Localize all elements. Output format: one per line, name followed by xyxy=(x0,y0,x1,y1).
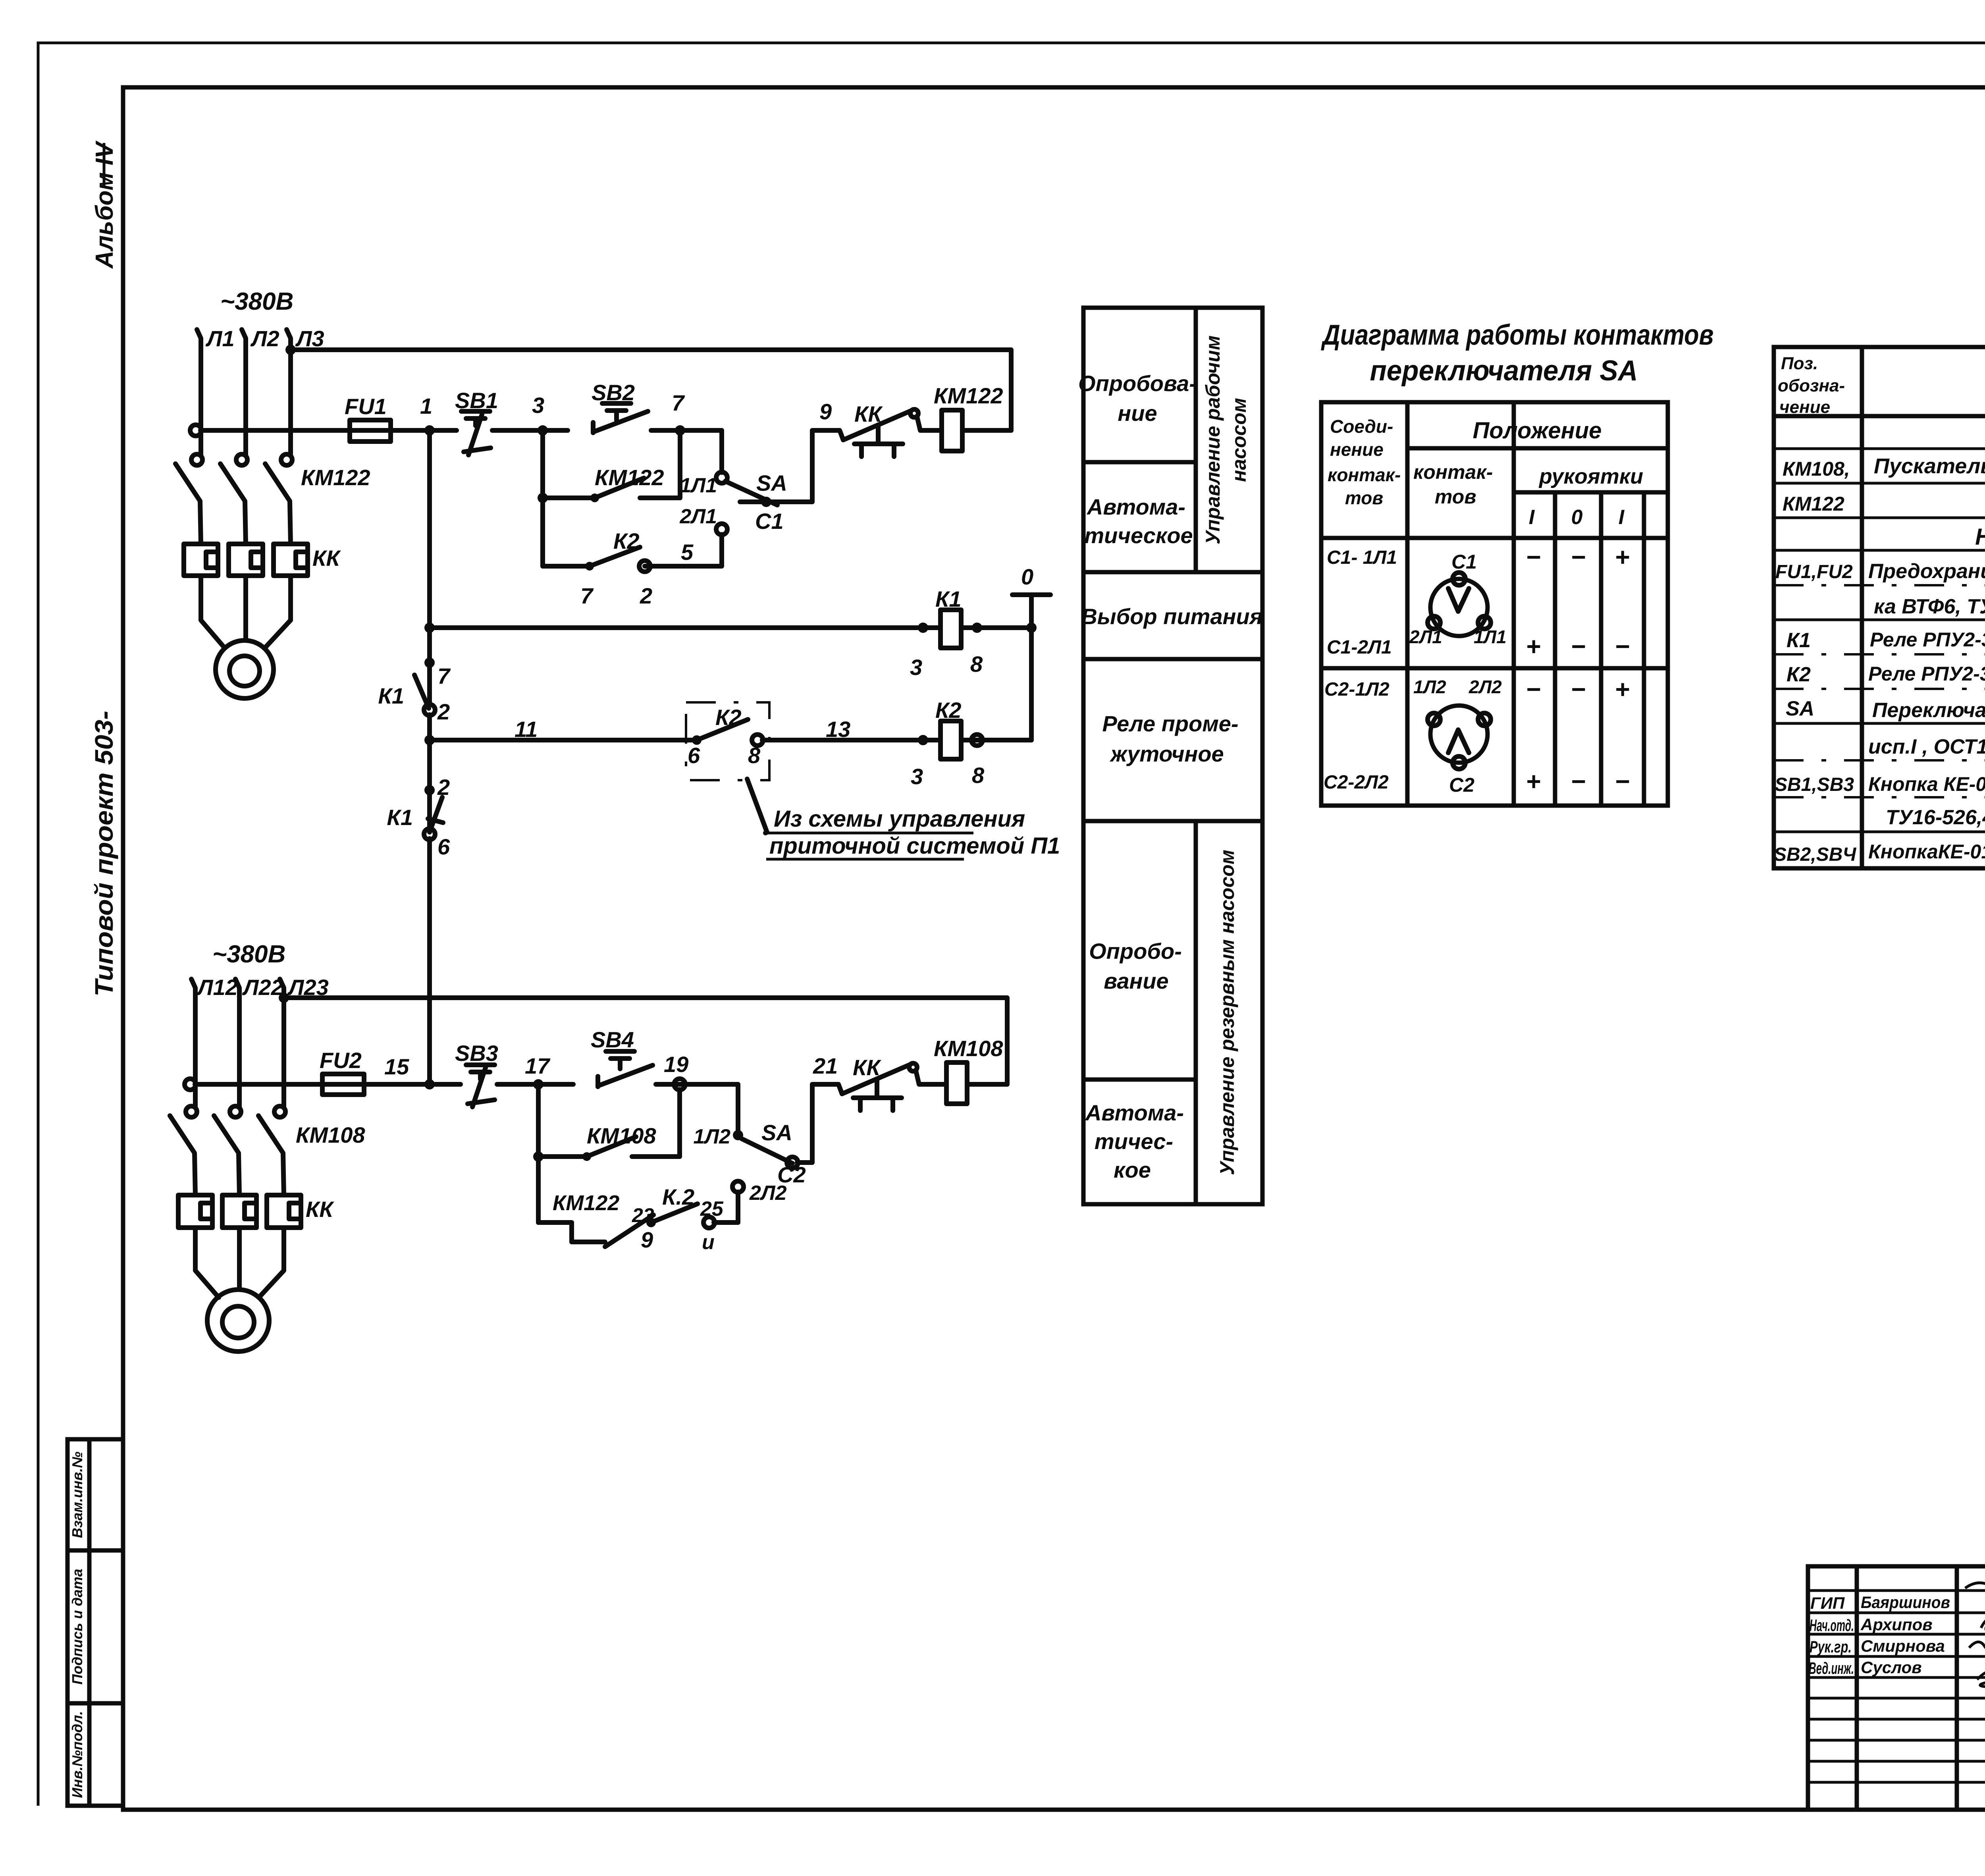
node 3 xyxy=(538,425,548,436)
svg-text:Л22: Л22 xyxy=(242,975,283,1000)
left margin texts xyxy=(67,140,123,1806)
svg-text:ние: ние xyxy=(1118,401,1157,426)
svg-text:КМ108: КМ108 xyxy=(934,1036,1003,1061)
svg-text:КМ122: КМ122 xyxy=(553,1191,619,1215)
wire vertical node1 chain xyxy=(427,430,432,705)
svg-text:Выбор питания: Выбор питания xyxy=(1081,604,1262,629)
svg-text:К1: К1 xyxy=(378,683,404,708)
thermal contact KK (NC) xyxy=(842,1055,946,1111)
switch contact 2L2 xyxy=(732,1181,744,1192)
svg-text:0: 0 xyxy=(1571,506,1583,529)
table frame xyxy=(1774,347,1985,868)
node 15 xyxy=(424,1079,435,1089)
svg-text:приточной системой П1: приточной системой П1 xyxy=(769,833,1060,859)
wire phase L3 xyxy=(287,330,291,454)
svg-text:−: − xyxy=(1615,767,1629,796)
pushbutton SB4 (NO) xyxy=(591,1027,653,1087)
svg-text:контак-: контак- xyxy=(1413,461,1493,483)
svg-text:КК: КК xyxy=(854,401,883,426)
svg-text:КМ122: КМ122 xyxy=(301,465,370,490)
header rows xyxy=(1407,446,1668,451)
switch contact 1L2 xyxy=(733,1130,743,1140)
node on rail xyxy=(1026,623,1037,633)
aux contact KM108 branch xyxy=(533,1084,680,1222)
svg-text:Вед.инж.: Вед.инж. xyxy=(1809,1659,1854,1677)
svg-text:1Л2: 1Л2 xyxy=(1413,677,1446,697)
control tap terminal on L1 xyxy=(190,425,201,436)
svg-text:На щите управления: На щите управления xyxy=(1975,524,1985,550)
svg-text:кое: кое xyxy=(1114,1157,1151,1182)
thermal relay KK heaters xyxy=(178,1195,334,1228)
node 19 xyxy=(674,1079,685,1090)
wire xyxy=(497,1082,573,1087)
aux contact K2 branch xyxy=(543,528,722,608)
svg-text:I: I xyxy=(1529,506,1535,529)
svg-text:+: + xyxy=(1615,543,1629,571)
title block xyxy=(1808,1566,1985,1851)
pushbutton SB2 (NO) xyxy=(592,380,648,433)
switch SA blade xyxy=(742,1139,792,1163)
svg-text:3: 3 xyxy=(910,655,922,680)
svg-text:9: 9 xyxy=(819,399,832,424)
svg-text:2Л2: 2Л2 xyxy=(749,1182,787,1205)
row lines xyxy=(1774,447,1985,450)
svg-text:тичес-: тичес- xyxy=(1095,1129,1173,1154)
svg-text:К2: К2 xyxy=(1786,663,1811,686)
coil KM122 xyxy=(942,410,962,451)
wire bottom bus xyxy=(284,998,1007,1084)
svg-text:I: I xyxy=(1619,506,1625,529)
svg-text:Положение: Положение xyxy=(1473,418,1602,443)
node 8 xyxy=(972,623,982,633)
svg-text:Л3: Л3 xyxy=(295,326,324,351)
svg-text:обозна-: обозна- xyxy=(1778,376,1845,395)
svg-text:жуточное: жуточное xyxy=(1109,741,1224,766)
svg-text:6: 6 xyxy=(688,743,700,768)
node 1 xyxy=(424,425,435,436)
svg-text:КК: КК xyxy=(853,1055,881,1080)
svg-text:насосом: насосом xyxy=(1228,398,1250,482)
contactor KM122 main contacts xyxy=(175,454,370,544)
svg-text:Предохранитель ППТ-10УЗ, плавк: Предохранитель ППТ-10УЗ, плавкая встав xyxy=(1868,560,1985,583)
aux contact KM122 branch xyxy=(538,430,680,566)
node C1 xyxy=(761,497,771,507)
svg-text:21: 21 xyxy=(813,1053,838,1078)
coil KM108 xyxy=(946,1062,967,1104)
table frame xyxy=(1083,308,1262,1204)
svg-text:Инв.№подл.: Инв.№подл. xyxy=(69,1711,85,1798)
svg-text:7: 7 xyxy=(672,390,685,415)
svg-text:ка ВТФ6, ТУ16-521.037-75: ка ВТФ6, ТУ16-521.037-75 xyxy=(1874,595,1985,618)
node 3 xyxy=(918,735,928,745)
motor M2 xyxy=(195,1228,284,1352)
leader line xyxy=(747,779,767,833)
svg-text:11: 11 xyxy=(515,717,538,742)
svg-text:15: 15 xyxy=(384,1054,409,1079)
relay rows xyxy=(378,430,1060,1084)
svg-text:FU1: FU1 xyxy=(345,394,387,419)
node 3 xyxy=(918,623,928,633)
svg-text:Автома-: Автома- xyxy=(1085,1100,1184,1125)
svg-text:КМ122: КМ122 xyxy=(934,383,1003,408)
svg-text:С2: С2 xyxy=(1449,774,1474,796)
svg-text:Реле проме-: Реле проме- xyxy=(1102,711,1238,736)
svg-text:−: − xyxy=(1571,632,1585,661)
svg-text:5: 5 xyxy=(681,540,694,565)
col lines xyxy=(1860,347,1864,868)
top motor circuit xyxy=(175,288,1011,698)
dashed box K2 external xyxy=(686,702,769,780)
svg-text:Реле РПУ2-362003УЗ,~220В, ТУ16: Реле РПУ2-362003УЗ,~220В, ТУ16-523,331-7… xyxy=(1868,663,1985,685)
wire phase L12 xyxy=(191,979,195,1106)
svg-text:Типовой проект 503-: Типовой проект 503- xyxy=(90,711,118,997)
svg-text:Пускатель магнитный: Пускатель магнитный xyxy=(1874,454,1985,478)
svg-text:+: + xyxy=(1526,632,1540,661)
node junction K2 row xyxy=(424,735,435,745)
svg-text:9: 9 xyxy=(641,1227,653,1252)
svg-text:Автома-: Автома- xyxy=(1086,494,1185,519)
row lines xyxy=(1083,460,1196,465)
svg-text:1Л1: 1Л1 xyxy=(1474,627,1507,647)
svg-text:тов: тов xyxy=(1345,488,1383,508)
svg-text:КК: КК xyxy=(306,1197,334,1222)
column divider bottom xyxy=(1194,821,1198,1204)
svg-text:КК: КК xyxy=(312,546,341,571)
svg-text:Взам.инв.№: Взам.инв.№ xyxy=(69,1452,85,1538)
wire SA output xyxy=(740,430,843,502)
svg-text:17: 17 xyxy=(525,1053,551,1078)
svg-text:Л12: Л12 xyxy=(196,975,238,1000)
svg-text:FU2: FU2 xyxy=(320,1048,362,1073)
coil K1 xyxy=(940,610,961,648)
svg-text:−: − xyxy=(1571,543,1585,571)
fuse FU1 xyxy=(200,428,457,433)
svg-text:С1: С1 xyxy=(755,509,784,534)
svg-text:К1: К1 xyxy=(387,805,413,830)
svg-text:Опробова-: Опробова- xyxy=(1078,371,1197,396)
svg-text:Рук.гр.: Рук.гр. xyxy=(1810,1637,1852,1656)
svg-text:−: − xyxy=(1571,767,1585,796)
svg-text:19: 19 xyxy=(664,1052,688,1077)
wire top bus xyxy=(291,350,1011,430)
svg-text:Управление рабочим: Управление рабочим xyxy=(1202,335,1224,544)
svg-text:1Л2: 1Л2 xyxy=(693,1125,730,1148)
svg-text:−: − xyxy=(1615,632,1629,661)
contactor KM108 main contacts xyxy=(170,1106,365,1195)
bottom left stamp strip xyxy=(67,1439,123,1806)
col lines xyxy=(1405,402,1410,806)
motor M1 xyxy=(201,576,291,698)
svg-text:Подпись и дата: Подпись и дата xyxy=(69,1569,85,1685)
svg-text:исп.I , ОСТ16,0526,001-77: исп.I , ОСТ16,0526,001-77 xyxy=(1868,735,1985,758)
switch contact 1L1 xyxy=(716,472,727,483)
wire xyxy=(962,428,1011,433)
switch contact 2L1 xyxy=(716,524,727,535)
svg-text:7: 7 xyxy=(580,583,594,608)
svg-text:3: 3 xyxy=(532,393,544,418)
svg-text:13: 13 xyxy=(826,717,850,742)
svg-text:7: 7 xyxy=(437,663,451,688)
node junction K1 row xyxy=(424,623,435,633)
svg-text:~380В: ~380В xyxy=(220,288,293,315)
svg-text:Архипов: Архипов xyxy=(1860,1615,1933,1634)
svg-text:вание: вание xyxy=(1104,968,1168,993)
wire K2 row xyxy=(430,738,697,742)
svg-text:ГИП: ГИП xyxy=(1810,1594,1845,1612)
svg-text:Диаграмма работы контактов: Диаграмма работы контактов xyxy=(1320,319,1713,351)
svg-text:Суслов: Суслов xyxy=(1861,1658,1922,1677)
parts list table xyxy=(1774,347,1985,868)
svg-text:С2-2Л2: С2-2Л2 xyxy=(1324,772,1389,793)
svg-text:ТУ16-526,407-79: ТУ16-526,407-79 xyxy=(1886,806,1985,829)
svg-text:8: 8 xyxy=(748,743,761,768)
svg-text:С1- 1Л1: С1- 1Л1 xyxy=(1327,547,1397,568)
contact K2 (NO) xyxy=(692,735,701,745)
svg-text:К.2: К.2 xyxy=(662,1184,694,1209)
svg-text:Реле РПУ2-360023УЗ,~220В, ТУ16: Реле РПУ2-360023УЗ,~220В, ТУ16-523.331-7… xyxy=(1870,629,1985,651)
node C2 xyxy=(787,1157,798,1168)
svg-text:переключателя SA: переключателя SA xyxy=(1370,355,1638,387)
svg-text:К1: К1 xyxy=(1786,629,1811,652)
svg-text:КнопкаКЕ-011УЗ, исп.4, ТУ16-52: КнопкаКЕ-011УЗ, исп.4, ТУ16-526,407-79 xyxy=(1868,841,1985,863)
svg-text:SB2,SBЧ: SB2,SBЧ xyxy=(1774,844,1856,865)
switch SA blade xyxy=(725,481,777,505)
switch diagram C2 xyxy=(1413,677,1502,796)
svg-text:SB1,SB3: SB1,SB3 xyxy=(1775,774,1854,795)
svg-text:−: − xyxy=(1526,543,1540,571)
column divider top xyxy=(1194,308,1198,572)
control tap terminal on L12 xyxy=(185,1079,196,1090)
function table xyxy=(1078,308,1263,1204)
thermal contact KK (NC) xyxy=(843,401,942,457)
svg-text:нение: нение xyxy=(1330,439,1384,460)
wire xyxy=(656,1084,738,1130)
svg-text:Опробо-: Опробо- xyxy=(1089,939,1182,964)
svg-text:FU1,FU2: FU1,FU2 xyxy=(1775,561,1853,582)
node 2 xyxy=(424,785,435,795)
SA diagram table xyxy=(1320,319,1713,806)
wire xyxy=(651,430,722,472)
svg-text:Л2: Л2 xyxy=(250,326,279,351)
svg-text:SB4: SB4 xyxy=(591,1027,634,1052)
pushbutton SB3 (NC) xyxy=(455,1041,498,1107)
svg-text:К2: К2 xyxy=(613,528,640,553)
contact K.2 xyxy=(646,1218,656,1227)
svg-text:К2: К2 xyxy=(935,698,962,723)
svg-text:контак-: контак- xyxy=(1328,465,1401,485)
wire xyxy=(762,738,940,742)
svg-text:С1-2Л1: С1-2Л1 xyxy=(1327,637,1392,658)
svg-text:Смирнова: Смирнова xyxy=(1861,1637,1945,1655)
svg-text:−: − xyxy=(1571,675,1585,704)
wire xyxy=(967,1082,1007,1087)
svg-text:С1: С1 xyxy=(1451,551,1477,573)
svg-text:Из схемы управления: Из схемы управления xyxy=(774,806,1025,832)
svg-text:Кнопка КЕ-011УЗ, исп.5,толкате: Кнопка КЕ-011УЗ, исп.5,толкатель красный xyxy=(1868,773,1985,795)
svg-text:К1: К1 xyxy=(935,586,962,611)
svg-text:Л1: Л1 xyxy=(205,326,235,351)
signature table columns xyxy=(1855,1566,1859,1810)
node 8 xyxy=(971,735,983,746)
svg-text:тов: тов xyxy=(1435,486,1476,508)
svg-text:КМ122: КМ122 xyxy=(1783,493,1844,515)
svg-text:Поз.: Поз. xyxy=(1781,354,1818,373)
svg-text:2Л1: 2Л1 xyxy=(1409,627,1442,647)
switch diagram C1 xyxy=(1409,551,1507,647)
svg-text:8: 8 xyxy=(970,652,983,677)
svg-text:1Л1: 1Л1 xyxy=(680,474,717,497)
wire phase L22 xyxy=(235,979,239,1106)
wire xyxy=(961,738,1031,742)
bottom motor circuit xyxy=(170,941,1007,1352)
svg-text:КМ122: КМ122 xyxy=(595,465,664,490)
svg-text:КМ108: КМ108 xyxy=(587,1123,656,1148)
svg-text:2: 2 xyxy=(640,583,652,608)
svg-text:−: − xyxy=(1526,675,1540,704)
svg-text:КМ108: КМ108 xyxy=(296,1122,365,1147)
wire phase L2 xyxy=(242,330,246,454)
svg-text:+: + xyxy=(1526,767,1540,796)
svg-text:чение: чение xyxy=(1779,397,1830,417)
wire xyxy=(492,428,568,433)
signatures xyxy=(1965,1579,1985,1589)
node 17 xyxy=(533,1079,543,1089)
svg-text:SA: SA xyxy=(1786,697,1814,720)
svg-text:Нач.отд.: Нач.отд. xyxy=(1810,1616,1854,1635)
svg-text:1: 1 xyxy=(420,393,432,418)
contact K1 upper (NO) xyxy=(414,675,429,708)
table frame xyxy=(1321,402,1668,806)
svg-text:С2-1Л2: С2-1Л2 xyxy=(1324,679,1389,700)
wire phase L1 xyxy=(197,330,201,454)
svg-text:Переключатель пакетный ППГ-10/: Переключатель пакетный ППГ-10/Н2УЗ, xyxy=(1872,699,1985,722)
svg-text:3: 3 xyxy=(911,764,923,789)
wire phase L23 xyxy=(280,979,284,1106)
wire xyxy=(961,625,1031,630)
svg-text:6: 6 xyxy=(437,834,450,859)
svg-text:Управление резервным насосом: Управление резервным насосом xyxy=(1216,850,1238,1175)
svg-text:8: 8 xyxy=(972,763,985,788)
svg-text:25: 25 xyxy=(700,1197,724,1220)
signature table rows xyxy=(1808,1589,1985,1592)
svg-text:SA: SA xyxy=(756,470,787,496)
svg-text:+: + xyxy=(1615,675,1629,704)
svg-text:0: 0 xyxy=(1021,564,1033,589)
terminal 0 xyxy=(1012,592,1050,597)
wire K1 row xyxy=(430,625,940,630)
fuse FU2 xyxy=(195,1082,461,1087)
header bottom xyxy=(1774,414,1985,418)
svg-text:Соеди-: Соеди- xyxy=(1330,416,1393,437)
coil K2 xyxy=(940,721,961,759)
svg-text:2: 2 xyxy=(437,699,450,724)
contact K1 lower (NC) xyxy=(430,797,442,832)
NC contact KM122 branch xyxy=(538,1184,738,1254)
svg-text:тическое: тическое xyxy=(1084,523,1193,548)
svg-text:SB3: SB3 xyxy=(455,1041,498,1066)
svg-text:~380В: ~380В xyxy=(212,941,285,968)
svg-text:2Л2: 2Л2 xyxy=(1469,677,1502,697)
svg-text:рукоятки: рукоятки xyxy=(1538,465,1643,488)
node 7 xyxy=(424,657,435,668)
node 7 xyxy=(675,425,685,436)
thermal relay KK heaters xyxy=(184,544,341,576)
svg-text:и: и xyxy=(702,1231,715,1254)
svg-text:SA: SA xyxy=(761,1120,792,1145)
svg-text:Баяршинов: Баяршинов xyxy=(1861,1593,1950,1612)
wire SA output xyxy=(797,1084,842,1163)
pushbutton SB1 (NC) xyxy=(455,388,498,455)
svg-text:2Л1: 2Л1 xyxy=(679,505,717,528)
svg-text:КМ108,: КМ108, xyxy=(1783,458,1850,480)
